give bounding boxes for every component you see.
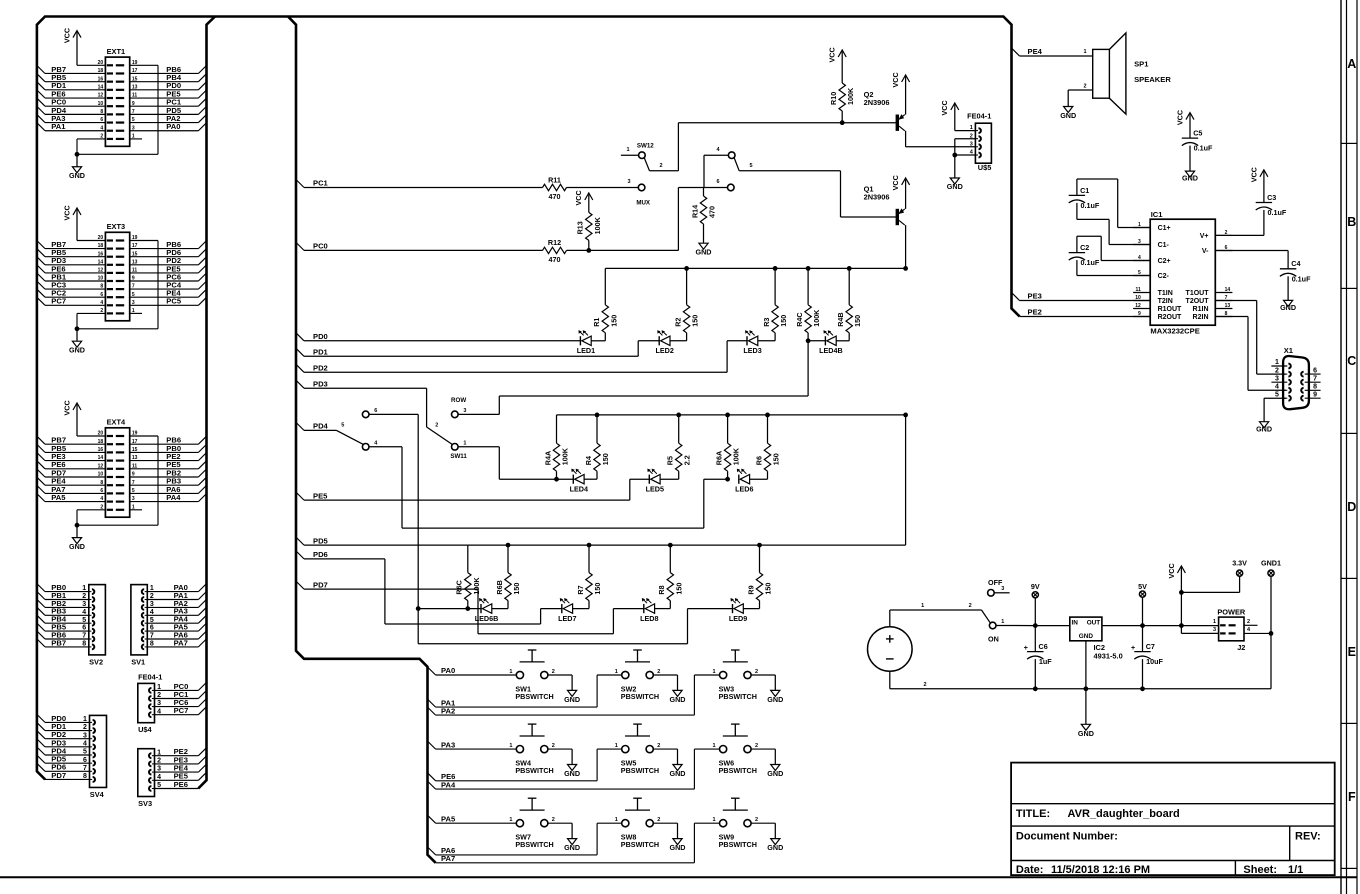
svg-text:7: 7 bbox=[83, 765, 87, 772]
svg-text:GND: GND bbox=[670, 769, 686, 778]
svg-text:10uF: 10uF bbox=[1146, 657, 1163, 666]
svg-text:C5: C5 bbox=[1193, 129, 1202, 138]
svg-text:PA0: PA0 bbox=[166, 122, 180, 131]
svg-text:2: 2 bbox=[755, 743, 758, 749]
svg-text:VCC: VCC bbox=[1167, 563, 1176, 578]
svg-text:PA4: PA4 bbox=[166, 493, 181, 502]
svg-text:R4A: R4A bbox=[543, 451, 552, 465]
svg-text:7: 7 bbox=[82, 633, 86, 640]
svg-text:GND: GND bbox=[1280, 303, 1296, 312]
svg-text:6: 6 bbox=[1225, 245, 1228, 251]
svg-text:2: 2 bbox=[435, 422, 438, 428]
svg-text:VCC: VCC bbox=[828, 47, 837, 62]
svg-text:R12: R12 bbox=[548, 238, 561, 247]
svg-text:2: 2 bbox=[923, 682, 926, 688]
svg-text:GND: GND bbox=[564, 843, 580, 852]
svg-text:9: 9 bbox=[1138, 311, 1141, 317]
svg-text:1: 1 bbox=[1213, 619, 1216, 625]
svg-text:4: 4 bbox=[150, 609, 154, 616]
svg-text:R6C: R6C bbox=[455, 580, 464, 594]
svg-text:470: 470 bbox=[549, 192, 561, 201]
svg-text:U$5: U$5 bbox=[978, 163, 992, 172]
svg-text:100K: 100K bbox=[472, 577, 481, 595]
svg-text:2: 2 bbox=[1275, 367, 1279, 374]
svg-text:5: 5 bbox=[150, 617, 154, 624]
svg-text:0.1uF: 0.1uF bbox=[1081, 201, 1100, 210]
svg-text:B: B bbox=[1347, 215, 1356, 229]
svg-text:1/1: 1/1 bbox=[1288, 864, 1303, 876]
svg-text:GND: GND bbox=[767, 769, 783, 778]
svg-text:1: 1 bbox=[509, 743, 512, 749]
svg-text:1: 1 bbox=[615, 743, 618, 749]
svg-text:100K: 100K bbox=[812, 309, 821, 327]
svg-text:IC1: IC1 bbox=[1151, 210, 1164, 219]
svg-text:IN: IN bbox=[1072, 620, 1079, 627]
svg-text:PA7: PA7 bbox=[441, 854, 455, 863]
svg-text:PE6: PE6 bbox=[174, 780, 188, 789]
svg-text:SW12: SW12 bbox=[637, 142, 654, 149]
svg-text:5: 5 bbox=[341, 423, 344, 429]
svg-text:REV:: REV: bbox=[1295, 831, 1321, 843]
svg-text:2: 2 bbox=[755, 817, 758, 823]
svg-text:V+: V+ bbox=[1200, 233, 1209, 240]
svg-text:GND1: GND1 bbox=[1261, 558, 1281, 567]
svg-text:6: 6 bbox=[83, 757, 87, 764]
svg-text:A: A bbox=[1347, 57, 1356, 71]
svg-text:R6A: R6A bbox=[714, 451, 723, 465]
svg-text:2: 2 bbox=[552, 817, 555, 823]
svg-text:PA2: PA2 bbox=[441, 706, 455, 715]
svg-text:GND: GND bbox=[1060, 111, 1076, 120]
svg-text:ROW: ROW bbox=[451, 397, 466, 404]
svg-text:C2: C2 bbox=[1080, 243, 1089, 252]
svg-text:PBSWITCH: PBSWITCH bbox=[719, 766, 757, 775]
svg-text:6: 6 bbox=[82, 625, 86, 632]
svg-text:6: 6 bbox=[1313, 367, 1317, 374]
svg-text:PA0: PA0 bbox=[441, 666, 455, 675]
svg-text:2N3906: 2N3906 bbox=[864, 192, 890, 201]
svg-text:PC5: PC5 bbox=[166, 297, 182, 306]
svg-text:150: 150 bbox=[512, 583, 521, 595]
svg-text:PD0: PD0 bbox=[313, 332, 328, 341]
svg-text:GND: GND bbox=[670, 695, 686, 704]
svg-text:VCC: VCC bbox=[1249, 167, 1258, 182]
svg-text:9: 9 bbox=[1313, 391, 1317, 398]
svg-text:470: 470 bbox=[549, 255, 561, 264]
svg-text:GND: GND bbox=[1256, 425, 1272, 434]
svg-text:470: 470 bbox=[708, 206, 717, 218]
svg-text:GND: GND bbox=[564, 695, 580, 704]
svg-text:3: 3 bbox=[463, 408, 466, 414]
svg-text:R1IN: R1IN bbox=[1193, 306, 1209, 313]
svg-text:150: 150 bbox=[593, 583, 602, 595]
svg-text:R2IN: R2IN bbox=[1193, 314, 1209, 321]
svg-text:+: + bbox=[1024, 645, 1028, 652]
svg-text:1: 1 bbox=[157, 749, 161, 756]
svg-text:PE3: PE3 bbox=[1028, 292, 1042, 301]
svg-text:5: 5 bbox=[82, 617, 86, 624]
svg-text:C: C bbox=[1347, 354, 1356, 368]
svg-text:0.1uF: 0.1uF bbox=[1081, 258, 1100, 267]
svg-text:3: 3 bbox=[157, 766, 161, 773]
svg-text:4931-5.0: 4931-5.0 bbox=[1094, 651, 1123, 660]
svg-text:GND: GND bbox=[564, 769, 580, 778]
svg-text:2N3906: 2N3906 bbox=[864, 98, 890, 107]
svg-text:2: 2 bbox=[552, 743, 555, 749]
svg-text:2: 2 bbox=[1225, 230, 1228, 236]
svg-text:Date:: Date: bbox=[1016, 864, 1044, 876]
svg-text:2: 2 bbox=[157, 692, 161, 699]
svg-text:R10: R10 bbox=[829, 92, 838, 105]
svg-text:2: 2 bbox=[657, 669, 660, 675]
svg-text:PC1: PC1 bbox=[313, 179, 329, 188]
svg-text:C1-: C1- bbox=[1158, 242, 1170, 249]
svg-text:C4: C4 bbox=[1291, 259, 1300, 268]
svg-text:4: 4 bbox=[1275, 384, 1279, 391]
svg-text:GND: GND bbox=[69, 542, 85, 551]
svg-text:8: 8 bbox=[1313, 384, 1317, 391]
svg-text:100K: 100K bbox=[846, 87, 855, 105]
svg-text:PE2: PE2 bbox=[1028, 308, 1042, 317]
svg-text:2: 2 bbox=[83, 724, 87, 731]
svg-text:Document Number:: Document Number: bbox=[1016, 831, 1118, 843]
svg-text:GND: GND bbox=[1079, 633, 1094, 640]
svg-text:AVR_daughter_board: AVR_daughter_board bbox=[1068, 808, 1180, 820]
svg-text:PD3: PD3 bbox=[313, 379, 328, 388]
svg-text:1: 1 bbox=[713, 669, 716, 675]
svg-text:8: 8 bbox=[83, 773, 87, 780]
svg-text:C2-: C2- bbox=[1158, 273, 1170, 280]
svg-text:V-: V- bbox=[1202, 248, 1209, 255]
svg-text:11: 11 bbox=[1136, 287, 1142, 293]
svg-text:GND: GND bbox=[69, 171, 85, 180]
svg-text:1: 1 bbox=[713, 817, 716, 823]
svg-text:11/5/2018 12:16 PM: 11/5/2018 12:16 PM bbox=[1051, 864, 1150, 876]
svg-text:6: 6 bbox=[374, 408, 377, 414]
svg-text:LED4B: LED4B bbox=[819, 346, 843, 355]
svg-text:R1: R1 bbox=[592, 318, 601, 327]
svg-text:8: 8 bbox=[82, 641, 86, 648]
svg-text:SP1: SP1 bbox=[1134, 60, 1149, 69]
svg-text:150: 150 bbox=[674, 583, 683, 595]
svg-text:150: 150 bbox=[691, 315, 700, 327]
svg-text:2: 2 bbox=[552, 669, 555, 675]
svg-text:MUX: MUX bbox=[636, 199, 651, 206]
svg-text:R13: R13 bbox=[576, 221, 585, 234]
svg-text:R8: R8 bbox=[657, 585, 666, 594]
svg-text:PD4: PD4 bbox=[313, 422, 329, 431]
svg-text:14: 14 bbox=[1225, 287, 1231, 293]
svg-text:D: D bbox=[1347, 500, 1356, 514]
svg-text:100K: 100K bbox=[732, 447, 741, 465]
svg-text:3: 3 bbox=[1275, 375, 1279, 382]
svg-text:2.2: 2.2 bbox=[683, 455, 692, 465]
svg-text:FE04-1: FE04-1 bbox=[967, 112, 991, 121]
svg-text:1: 1 bbox=[615, 817, 618, 823]
svg-text:R9: R9 bbox=[746, 585, 755, 594]
svg-text:LED6: LED6 bbox=[735, 485, 753, 494]
svg-text:PBSWITCH: PBSWITCH bbox=[719, 692, 757, 701]
svg-text:3: 3 bbox=[83, 732, 87, 739]
svg-text:2: 2 bbox=[660, 163, 663, 169]
svg-text:GND: GND bbox=[670, 843, 686, 852]
svg-text:PBSWITCH: PBSWITCH bbox=[515, 766, 553, 775]
svg-text:F: F bbox=[1348, 790, 1356, 804]
svg-text:150: 150 bbox=[609, 315, 618, 327]
svg-text:Sheet:: Sheet: bbox=[1243, 864, 1277, 876]
svg-text:1: 1 bbox=[509, 669, 512, 675]
svg-text:5: 5 bbox=[83, 749, 87, 756]
svg-text:150: 150 bbox=[764, 583, 773, 595]
svg-text:PA4: PA4 bbox=[441, 780, 456, 789]
svg-text:SV4: SV4 bbox=[90, 790, 105, 799]
svg-text:1: 1 bbox=[615, 669, 618, 675]
svg-text:3.3V: 3.3V bbox=[1232, 558, 1247, 567]
svg-text:1uF: 1uF bbox=[1039, 657, 1052, 666]
svg-text:SV1: SV1 bbox=[131, 657, 145, 666]
svg-text:150: 150 bbox=[772, 453, 781, 465]
svg-text:7: 7 bbox=[1313, 375, 1317, 382]
svg-text:3: 3 bbox=[970, 141, 973, 147]
svg-text:PE4: PE4 bbox=[1028, 47, 1043, 56]
svg-text:R4: R4 bbox=[584, 456, 593, 465]
svg-text:PBSWITCH: PBSWITCH bbox=[719, 840, 757, 849]
svg-text:VCC: VCC bbox=[62, 205, 71, 220]
svg-text:SV3: SV3 bbox=[138, 799, 152, 808]
svg-text:C1+: C1+ bbox=[1158, 225, 1171, 232]
svg-text:3: 3 bbox=[157, 700, 161, 707]
svg-text:1: 1 bbox=[1083, 49, 1086, 55]
svg-text:PD5: PD5 bbox=[313, 536, 329, 545]
svg-text:+: + bbox=[1131, 645, 1135, 652]
svg-text:2: 2 bbox=[1247, 619, 1250, 625]
svg-text:0.1uF: 0.1uF bbox=[1268, 208, 1287, 217]
svg-text:PB7: PB7 bbox=[51, 638, 66, 647]
svg-text:SV2: SV2 bbox=[89, 657, 103, 666]
svg-text:1: 1 bbox=[713, 743, 716, 749]
svg-text:SW11: SW11 bbox=[450, 453, 467, 460]
svg-text:MAX3232CPE: MAX3232CPE bbox=[1150, 327, 1199, 336]
svg-text:ON: ON bbox=[988, 635, 999, 644]
svg-text:X1: X1 bbox=[1284, 346, 1294, 355]
svg-text:PD1: PD1 bbox=[313, 348, 329, 357]
svg-text:R2: R2 bbox=[673, 318, 682, 327]
svg-text:LED3: LED3 bbox=[743, 346, 761, 355]
svg-text:PD6: PD6 bbox=[313, 550, 328, 559]
svg-text:6: 6 bbox=[716, 179, 719, 185]
svg-text:PC0: PC0 bbox=[313, 242, 328, 251]
svg-text:4: 4 bbox=[1138, 255, 1141, 261]
svg-text:1: 1 bbox=[1001, 619, 1004, 625]
svg-text:EXT4: EXT4 bbox=[107, 418, 126, 427]
svg-text:R14: R14 bbox=[690, 205, 699, 218]
svg-text:U$4: U$4 bbox=[138, 725, 152, 734]
svg-text:100K: 100K bbox=[593, 216, 602, 234]
svg-text:1: 1 bbox=[463, 441, 466, 447]
svg-text:10: 10 bbox=[1135, 295, 1141, 301]
svg-text:VCC: VCC bbox=[62, 28, 71, 43]
svg-text:R6B: R6B bbox=[495, 580, 504, 594]
svg-text:1: 1 bbox=[82, 585, 86, 592]
svg-text:J2: J2 bbox=[1237, 643, 1245, 652]
svg-text:PA1: PA1 bbox=[51, 122, 66, 131]
svg-text:VCC: VCC bbox=[891, 72, 900, 87]
svg-text:1: 1 bbox=[1138, 222, 1141, 228]
svg-text:PA5: PA5 bbox=[441, 814, 456, 823]
svg-text:9V: 9V bbox=[1031, 582, 1040, 591]
svg-text:OUT: OUT bbox=[1087, 620, 1101, 627]
svg-text:LED7: LED7 bbox=[558, 614, 576, 623]
svg-text:T2IN: T2IN bbox=[1158, 298, 1173, 305]
svg-text:PA5: PA5 bbox=[51, 493, 66, 502]
svg-text:2: 2 bbox=[657, 743, 660, 749]
svg-text:PBSWITCH: PBSWITCH bbox=[621, 766, 659, 775]
svg-text:1: 1 bbox=[1275, 359, 1279, 366]
svg-text:1: 1 bbox=[921, 603, 924, 609]
svg-text:GND: GND bbox=[947, 182, 963, 191]
svg-text:LED2: LED2 bbox=[656, 346, 674, 355]
svg-text:R5: R5 bbox=[666, 456, 675, 465]
svg-text:2: 2 bbox=[1083, 84, 1086, 90]
svg-text:R4B: R4B bbox=[836, 312, 845, 326]
svg-text:150: 150 bbox=[601, 453, 610, 465]
svg-text:T1IN: T1IN bbox=[1158, 290, 1173, 297]
svg-text:150: 150 bbox=[779, 315, 788, 327]
svg-text:5: 5 bbox=[1275, 391, 1279, 398]
svg-text:2: 2 bbox=[657, 817, 660, 823]
svg-text:PBSWITCH: PBSWITCH bbox=[515, 692, 553, 701]
svg-text:LED8: LED8 bbox=[640, 614, 658, 623]
svg-text:VCC: VCC bbox=[62, 400, 71, 415]
svg-text:R4C: R4C bbox=[795, 312, 804, 326]
svg-text:FE04-1: FE04-1 bbox=[138, 672, 162, 681]
svg-text:T2OUT: T2OUT bbox=[1186, 298, 1210, 305]
svg-text:4: 4 bbox=[83, 740, 87, 747]
svg-text:LED5: LED5 bbox=[646, 485, 664, 494]
svg-text:T1OUT: T1OUT bbox=[1186, 290, 1210, 297]
svg-text:150: 150 bbox=[853, 315, 862, 327]
svg-text:GND: GND bbox=[696, 248, 712, 257]
svg-text:2: 2 bbox=[969, 603, 972, 609]
svg-text:R6: R6 bbox=[754, 456, 763, 465]
svg-text:EXT1: EXT1 bbox=[107, 47, 125, 56]
svg-text:5: 5 bbox=[1138, 270, 1141, 276]
svg-text:3: 3 bbox=[627, 179, 630, 185]
svg-text:PD7: PD7 bbox=[51, 771, 66, 780]
svg-text:2: 2 bbox=[157, 758, 161, 765]
svg-text:5: 5 bbox=[750, 163, 753, 169]
svg-text:VCC: VCC bbox=[891, 175, 900, 190]
svg-text:LED9: LED9 bbox=[729, 614, 747, 623]
svg-text:GND: GND bbox=[767, 695, 783, 704]
svg-text:LED1: LED1 bbox=[577, 346, 595, 355]
svg-text:GND: GND bbox=[1182, 173, 1198, 182]
svg-text:2: 2 bbox=[755, 669, 758, 675]
svg-text:1: 1 bbox=[83, 716, 87, 723]
svg-text:13: 13 bbox=[1225, 303, 1231, 309]
svg-text:7: 7 bbox=[150, 633, 154, 640]
svg-text:R1OUT: R1OUT bbox=[1158, 306, 1182, 313]
svg-text:4: 4 bbox=[82, 609, 86, 616]
svg-text:LED4: LED4 bbox=[570, 485, 588, 494]
svg-text:R2OUT: R2OUT bbox=[1158, 314, 1182, 321]
svg-text:POWER: POWER bbox=[1217, 607, 1246, 616]
svg-text:12: 12 bbox=[1135, 303, 1141, 309]
svg-text:PD2: PD2 bbox=[313, 364, 328, 373]
svg-text:5: 5 bbox=[157, 782, 161, 789]
svg-text:PBSWITCH: PBSWITCH bbox=[621, 840, 659, 849]
svg-text:GND: GND bbox=[69, 346, 85, 355]
svg-text:R3: R3 bbox=[762, 318, 771, 327]
svg-text:R7: R7 bbox=[576, 585, 585, 594]
svg-text:PBSWITCH: PBSWITCH bbox=[621, 692, 659, 701]
svg-text:C7: C7 bbox=[1146, 642, 1155, 651]
svg-text:5V: 5V bbox=[1138, 582, 1147, 591]
svg-text:C2+: C2+ bbox=[1158, 258, 1171, 265]
svg-text:3: 3 bbox=[1001, 586, 1004, 592]
svg-text:E: E bbox=[1348, 645, 1356, 659]
svg-text:0.1uF: 0.1uF bbox=[1194, 144, 1213, 153]
svg-text:VCC: VCC bbox=[940, 100, 949, 115]
svg-text:PC7: PC7 bbox=[51, 297, 66, 306]
svg-text:TITLE:: TITLE: bbox=[1016, 808, 1050, 820]
svg-text:3: 3 bbox=[1213, 627, 1216, 633]
svg-text:GND: GND bbox=[1078, 729, 1094, 738]
svg-text:C1: C1 bbox=[1080, 186, 1089, 195]
svg-text:100K: 100K bbox=[561, 447, 570, 465]
svg-text:SPEAKER: SPEAKER bbox=[1134, 75, 1171, 84]
svg-text:PA3: PA3 bbox=[441, 740, 455, 749]
svg-text:PBSWITCH: PBSWITCH bbox=[515, 840, 553, 849]
svg-text:VCC: VCC bbox=[1175, 110, 1184, 125]
svg-text:3: 3 bbox=[150, 601, 154, 608]
svg-text:6: 6 bbox=[150, 625, 154, 632]
svg-text:3: 3 bbox=[1138, 239, 1141, 245]
svg-text:C6: C6 bbox=[1039, 642, 1048, 651]
svg-text:R11: R11 bbox=[548, 175, 561, 184]
svg-text:1: 1 bbox=[509, 817, 512, 823]
svg-text:4: 4 bbox=[157, 774, 161, 781]
svg-text:VCC: VCC bbox=[574, 190, 583, 205]
svg-text:PC7: PC7 bbox=[174, 706, 189, 715]
svg-text:3: 3 bbox=[82, 601, 86, 608]
svg-text:1: 1 bbox=[626, 147, 629, 153]
svg-text:2: 2 bbox=[150, 593, 154, 600]
svg-text:1: 1 bbox=[150, 585, 154, 592]
svg-text:PE5: PE5 bbox=[313, 491, 328, 500]
svg-text:2: 2 bbox=[82, 593, 86, 600]
svg-text:GND: GND bbox=[767, 843, 783, 852]
svg-text:C3: C3 bbox=[1267, 193, 1276, 202]
svg-text:PA7: PA7 bbox=[174, 638, 188, 647]
svg-text:0.1uF: 0.1uF bbox=[1292, 274, 1311, 283]
svg-text:EXT3: EXT3 bbox=[107, 222, 125, 231]
svg-text:8: 8 bbox=[150, 641, 154, 648]
svg-text:4: 4 bbox=[157, 708, 161, 715]
svg-text:1: 1 bbox=[157, 684, 161, 691]
svg-text:PD7: PD7 bbox=[313, 580, 328, 589]
